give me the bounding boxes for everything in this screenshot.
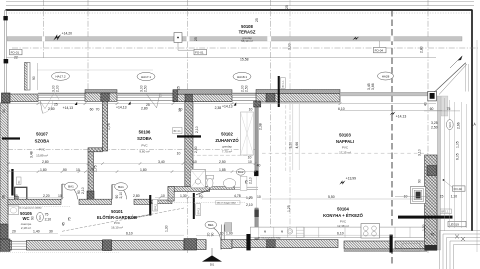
svg-text:7,75 m²: 7,75 m²: [222, 150, 232, 154]
dim line nappali y199: [257, 195, 424, 199]
svg-text:FO-01: FO-01: [11, 51, 20, 55]
wall segment w4 with insulation: [256, 90, 340, 103]
svg-text:2,38: 2,38: [258, 123, 262, 130]
corner block: [2, 93, 11, 103]
svg-text:1,30: 1,30: [164, 225, 168, 232]
mid dim row 2: [7, 168, 256, 173]
svg-text:M: M: [264, 230, 266, 234]
svg-text:2,80: 2,80: [141, 107, 148, 111]
svg-text:SZOBA: SZOBA: [137, 136, 152, 141]
left terrace edge double line: [4, 10, 6, 93]
beam BF 1.1 top: [278, 76, 286, 107]
washbasin zuh: [223, 179, 235, 188]
svg-text:2,66: 2,66: [457, 122, 461, 129]
black square on left edge 2: [4, 59, 9, 63]
svg-text:BA1: BA1: [118, 185, 124, 189]
SOUTH WALL: [0, 221, 427, 266]
svg-text:70: 70: [96, 108, 100, 112]
wall stub black in szoba1: [2, 137, 20, 139]
svg-text:BF 1.1: BF 1.1: [441, 211, 449, 214]
svg-text:36: 36: [2, 195, 6, 199]
zuh door leaf: [196, 190, 210, 195]
svg-text:BF4.3: BF4.3: [198, 208, 201, 215]
svg-text:+14,13: +14,13: [222, 105, 233, 109]
svg-text:25: 25: [146, 103, 150, 107]
svg-text:WC: WC: [23, 216, 30, 221]
szoba1 east wall lower: [88, 152, 94, 200]
svg-text:4,66: 4,66: [295, 142, 299, 149]
svg-text:2,10: 2,10: [195, 126, 199, 133]
rotated dims HA28: [367, 72, 394, 90]
east wall: [425, 155, 437, 251]
nappali west wall: [254, 101, 261, 240]
svg-text:FO-01: FO-01: [195, 51, 204, 55]
room axis dash-dot horizontal: [8, 149, 255, 151]
window 1: [38, 93, 85, 114]
svg-text:50: 50: [14, 194, 18, 198]
svg-text:10: 10: [193, 160, 197, 164]
dim 6,10 nappali top: [338, 107, 442, 111]
svg-text:2,80: 2,80: [420, 46, 424, 53]
svg-text:30: 30: [49, 230, 53, 234]
svg-text:HA17.1: HA17.1: [141, 75, 151, 79]
elotere north wall low part y199: [8, 199, 172, 204]
oval BA3 konyha door: [246, 196, 253, 207]
elotere dim row: [8, 194, 252, 199]
svg-text:50104: 50104: [337, 207, 349, 212]
svg-text:2,50: 2,50: [245, 85, 249, 92]
cap at wall bottom: [87, 191, 94, 201]
beam BF 1.1 bottom: [398, 209, 453, 219]
terrace room label: [239, 24, 256, 43]
level marker right: [353, 37, 359, 40]
oval BA1 second: [115, 183, 128, 199]
svg-text:2,10: 2,10: [246, 203, 253, 207]
toilet zuh: [206, 175, 213, 187]
dim 6,10 elotere: [60, 231, 184, 235]
axis A vertical dash-dot: [43, 0, 45, 58]
svg-text:75: 75: [447, 107, 451, 111]
szoba1 east wall upper: [102, 101, 107, 151]
wall segment w1: [2, 94, 38, 102]
svg-text:50106: 50106: [139, 130, 151, 135]
svg-text:60 mély konyhabútor helye: 60 mély konyhabútor helye: [258, 237, 281, 240]
axis D vertical dash-dot: [270, 0, 272, 240]
svg-text:+13,99: +13,99: [346, 177, 357, 181]
svg-text:15,58: 15,58: [240, 58, 249, 62]
rotated dims zuh szoba2: [177, 86, 198, 153]
svg-text:40: 40: [257, 163, 261, 167]
svg-text:20: 20: [12, 230, 16, 234]
oval HA17.1: [137, 72, 155, 92]
EAST SIDE: [257, 40, 480, 269]
top dimension line 2: [6, 5, 474, 7]
black square on left edge: [3, 16, 7, 20]
svg-text:9,60 m²: 9,60 m²: [139, 149, 149, 153]
svg-text:90: 90: [210, 233, 214, 237]
dotted line below south wall: [0, 251, 120, 253]
oval BA2 zuh: [236, 169, 252, 184]
svg-text:NAPPALI: NAPPALI: [336, 139, 354, 144]
axis F vertical dash-dot: [427, 0, 429, 253]
svg-text:+14,13: +14,13: [116, 106, 127, 110]
svg-text:2,80: 2,80: [133, 194, 140, 198]
window2 dims: [116, 101, 182, 111]
svg-text:50101: 50101: [111, 209, 123, 214]
svg-text:501: 501: [210, 262, 215, 266]
svg-text:1,30: 1,30: [422, 224, 426, 231]
svg-text:25: 25: [177, 86, 181, 90]
svg-text:25: 25: [194, 37, 198, 41]
stove: [361, 224, 380, 238]
dims at szoba2 wall: [177, 126, 199, 155]
svg-text:FO-04: FO-04: [375, 49, 384, 53]
horizontal axis dash-dot: [12, 47, 478, 49]
window1 dims: [2, 102, 100, 113]
svg-text:1,20: 1,20: [246, 196, 253, 200]
svg-text:15: 15: [440, 195, 444, 199]
terrace railing strip east: [340, 92, 436, 96]
beam BF 4.1: [173, 127, 201, 137]
svg-text:+14,13: +14,13: [63, 106, 74, 110]
svg-text:25: 25: [285, 5, 289, 9]
room label zuhanyzo: [215, 131, 239, 153]
svg-text:10: 10: [178, 108, 182, 112]
entrance door BE1 opening: [206, 223, 232, 250]
kitchen counter: [250, 227, 424, 240]
svg-text:25: 25: [255, 18, 259, 22]
pilaster above wall: [25, 63, 38, 91]
svg-text:2,00: 2,00: [56, 85, 60, 92]
svg-text:16,10 m²: 16,10 m²: [111, 226, 123, 230]
rotated dims right column: [418, 120, 477, 237]
svg-text:1,80: 1,80: [40, 168, 47, 172]
duct shaft wc: [15, 187, 27, 200]
svg-text:13,89 m²: 13,89 m²: [36, 153, 48, 157]
staircase nested corners bottom right: [440, 231, 480, 269]
szoba1 east wall jog: [88, 148, 102, 152]
svg-text:50103: 50103: [339, 132, 351, 137]
corner column east: [428, 91, 437, 101]
svg-text:10 cm gipszkarton előtétfal: 10 cm gipszkarton előtétfal: [19, 206, 42, 209]
svg-text:1,05: 1,05: [456, 141, 460, 148]
svg-text:2,10: 2,10: [248, 177, 252, 184]
zuh dashed axis: [191, 154, 255, 156]
svg-text:BE5: BE5: [39, 215, 42, 220]
svg-text:12,38 m²: 12,38 m²: [337, 224, 349, 228]
svg-text:LÁ: LÁ: [472, 122, 477, 126]
svg-text:30: 30: [2, 109, 6, 113]
svg-text:10: 10: [76, 168, 80, 172]
svg-text:130 cm magas előfal: 130 cm magas előfal: [217, 203, 237, 205]
oval HA17.2: [52, 72, 70, 92]
svg-text:6,10: 6,10: [338, 107, 345, 111]
low wall label box: [216, 201, 241, 205]
DIMENSIONS: [2, 86, 442, 226]
svg-text:10: 10: [220, 231, 224, 235]
x markers stairs: [455, 235, 465, 242]
svg-text:BA1: BA1: [68, 185, 74, 189]
terrace inner edge line: [6, 57, 436, 59]
szoba2 zuhanyzo wall: [185, 102, 193, 187]
svg-text:1,10: 1,10: [451, 195, 458, 199]
svg-text:2,50: 2,50: [431, 126, 438, 130]
svg-text:5,50: 5,50: [328, 195, 335, 199]
door BA1 szoba2: [112, 185, 127, 200]
FO-04 label box right: [374, 41, 387, 53]
svg-text:BF4.2: BF4.2: [154, 203, 157, 210]
room label szoba1: [35, 132, 50, 158]
right dims 60 75: [424, 107, 460, 111]
svg-text:90: 90: [63, 168, 67, 172]
room label szoba2: [137, 130, 152, 154]
window 2: [117, 93, 173, 108]
svg-text:10: 10: [199, 194, 203, 198]
mid dim row 1: [7, 160, 256, 165]
svg-text:TERASZ: TERASZ: [239, 29, 256, 34]
svg-text:2,38: 2,38: [215, 106, 222, 110]
svg-text:1,75: 1,75: [107, 123, 111, 130]
svg-text:BE1: BE1: [208, 223, 214, 227]
axis B vertical dash-dot: [87, 0, 89, 101]
room label elotere: [97, 209, 137, 230]
rotated dims szoba1: [30, 123, 112, 226]
svg-text:2,10: 2,10: [45, 217, 52, 221]
shower tray: [191, 169, 206, 188]
svg-text:HA17.2: HA17.2: [55, 75, 65, 79]
svg-text:3,00: 3,00: [288, 43, 292, 50]
dim line right y196: [395, 195, 457, 199]
rotated dims nappali: [262, 100, 428, 212]
window3 dims: [215, 102, 237, 110]
svg-text:10: 10: [58, 194, 62, 198]
svg-text:3,25: 3,25: [431, 121, 438, 125]
FO-02 label: [443, 179, 465, 191]
svg-text:1,00: 1,00: [226, 231, 233, 235]
svg-text:2,90: 2,90: [194, 146, 198, 153]
level marker +14,20: [53, 31, 72, 40]
oval BE5 wc: [31, 212, 52, 221]
svg-text:3,66: 3,66: [371, 83, 375, 90]
south wall west run: [0, 239, 206, 252]
svg-text:10: 10: [177, 152, 181, 156]
neighbour verticals: [445, 40, 477, 252]
svg-text:10: 10: [257, 195, 261, 199]
svg-text:2,10: 2,10: [81, 187, 85, 194]
INTERIOR: [0, 101, 424, 240]
LE319 label: [448, 221, 466, 226]
right building edge thick: [471, 10, 473, 231]
svg-text:50107: 50107: [36, 132, 48, 137]
svg-text:25: 25: [54, 103, 58, 107]
wc dims bottom: [10, 230, 58, 234]
svg-text:6,05: 6,05: [456, 153, 460, 160]
svg-text:M: M: [281, 230, 283, 234]
svg-text:10: 10: [249, 107, 253, 111]
svg-text:45: 45: [431, 232, 435, 236]
window 3: [232, 93, 256, 101]
svg-text:2,20: 2,20: [43, 194, 50, 198]
svg-text:1,75: 1,75: [93, 165, 97, 172]
svg-text:1,80: 1,80: [140, 168, 147, 172]
svg-text:PVC: PVC: [342, 146, 349, 150]
axis C vertical dash-dot: [187, 0, 189, 253]
dotted line under roof edge: [6, 12, 470, 14]
escape route diagonal: [62, 208, 184, 231]
dim line under north wall: [2, 103, 436, 105]
svg-text:PVC: PVC: [141, 143, 148, 147]
TERRACE TOP: [7, 5, 462, 61]
svg-text:3,20: 3,20: [288, 142, 292, 149]
section line thick dashed: [391, 10, 393, 266]
svg-text:PVC: PVC: [340, 219, 347, 223]
level marker +13,99: [339, 177, 356, 185]
svg-text:90: 90: [31, 216, 35, 220]
svg-text:75: 75: [45, 212, 49, 216]
dim 6,10 konyha: [260, 231, 392, 235]
svg-text:ZUHANYZÓ: ZUHANYZÓ: [215, 138, 239, 143]
svg-text:3,10: 3,10: [418, 149, 422, 156]
wall end block: [193, 182, 198, 187]
FO-01 label box left: [10, 49, 23, 59]
svg-text:2,80: 2,80: [42, 160, 49, 164]
svg-text:90: 90: [417, 179, 421, 183]
chamfer corner diagonals: [435, 56, 469, 95]
room label konyha: [323, 207, 363, 228]
svg-text:50102: 50102: [221, 131, 233, 136]
svg-text:17,15 m²: 17,15 m²: [339, 150, 351, 154]
room label wc: [20, 211, 32, 230]
svg-text:3,40: 3,40: [158, 160, 165, 164]
svg-text:+14,13: +14,13: [396, 114, 407, 118]
level marker +14,13 east: [390, 112, 407, 119]
svg-text:BF 4.1: BF 4.1: [174, 130, 182, 133]
svg-text:50108: 50108: [241, 24, 253, 29]
svg-text:1,40: 1,40: [33, 230, 40, 234]
svg-text:2,18 m²: 2,18 m²: [21, 226, 31, 230]
svg-text:1,30: 1,30: [180, 194, 187, 198]
svg-text:ELŐTÉR-GARDRÓB: ELŐTÉR-GARDRÓB: [97, 215, 137, 220]
svg-text:10: 10: [248, 160, 252, 164]
dotted line under walls: [8, 205, 70, 207]
column detail nested squares: [404, 179, 426, 203]
svg-text:40: 40: [423, 102, 427, 106]
ticks on dim line: [37, 102, 342, 105]
svg-text:1,85: 1,85: [219, 168, 226, 172]
svg-text:+14,20: +14,20: [62, 31, 73, 35]
tall cabinet konyha: [240, 176, 247, 190]
svg-text:3,48: 3,48: [30, 151, 34, 158]
svg-text:SZOBA: SZOBA: [35, 138, 50, 143]
svg-text:BF: BF: [18, 180, 21, 184]
svg-text:75: 75: [68, 217, 72, 221]
svg-text:LÉ/319: LÉ/319: [449, 222, 459, 227]
beam bar BF4.3: [193, 193, 201, 219]
svg-text:10: 10: [404, 195, 408, 199]
svg-text:6,10: 6,10: [337, 231, 344, 235]
svg-text:BF 1.1: BF 1.1: [282, 80, 285, 88]
svg-text:6,10: 6,10: [126, 231, 133, 235]
dims near nappali west wall: [248, 107, 263, 167]
terrace drainage strip: [7, 36, 462, 41]
svg-text:22: 22: [14, 56, 18, 60]
svg-text:FO-02: FO-02: [454, 187, 463, 191]
svg-text:45: 45: [62, 222, 66, 226]
drain box: [174, 33, 194, 51]
east glazing strip: [437, 96, 440, 250]
south wall mid run: [221, 234, 338, 250]
oval BA1 first: [65, 182, 85, 194]
wall segment w3 with insulation: [173, 90, 232, 102]
svg-text:HA18.1: HA18.1: [237, 75, 247, 79]
west exterior wall: [0, 103, 8, 240]
light line y70: [37, 69, 153, 71]
top dimension line 1: [6, 1, 474, 3]
dims at entrance: [196, 231, 246, 235]
svg-text:PVC: PVC: [39, 148, 46, 152]
svg-text:4,78: 4,78: [234, 194, 241, 198]
svg-text:2,50: 2,50: [219, 160, 226, 164]
svg-text:10: 10: [248, 155, 252, 159]
FO-01 label box middle: [194, 49, 207, 54]
svg-text:KONYHA + ÉTKEZŐ: KONYHA + ÉTKEZŐ: [323, 213, 363, 218]
south wall east run: [344, 235, 427, 253]
elotere north wall upper part y186: [168, 187, 258, 202]
svg-text:greslap: greslap: [222, 145, 232, 149]
oval BE1: [205, 221, 217, 236]
neighbour gray strip top: [441, 96, 448, 116]
wc basin: [9, 206, 19, 215]
svg-text:60: 60: [90, 108, 94, 112]
svg-text:90: 90: [32, 76, 36, 80]
door BA1 szoba1: [62, 184, 78, 199]
wall segment w2 with insulation: [85, 90, 117, 102]
svg-text:BA2: BA2: [238, 170, 244, 174]
svg-text:2,80: 2,80: [48, 107, 55, 111]
beam bar BF4.2: [149, 195, 157, 216]
oval HA18.1: [233, 72, 251, 92]
svg-text:HA20: HA20: [449, 122, 452, 129]
roof edge thick line: [6, 9, 473, 11]
svg-text:2,10: 2,10: [119, 192, 123, 199]
beam bar BF4.4 wc: [11, 169, 21, 196]
room label nappali: [336, 132, 354, 154]
svg-text:2,50: 2,50: [144, 85, 148, 92]
svg-text:HA28: HA28: [382, 74, 390, 78]
north arrow entrance: [202, 248, 222, 266]
NORTH WALL: [2, 56, 469, 114]
svg-text:1,25: 1,25: [287, 205, 291, 212]
svg-text:58,10 m²: 58,10 m²: [241, 39, 253, 43]
axis E vertical dash-dot: [289, 0, 291, 240]
svg-text:PVC: PVC: [114, 221, 121, 225]
svg-text:10: 10: [161, 194, 165, 198]
wardrobe nappali: [241, 112, 254, 155]
